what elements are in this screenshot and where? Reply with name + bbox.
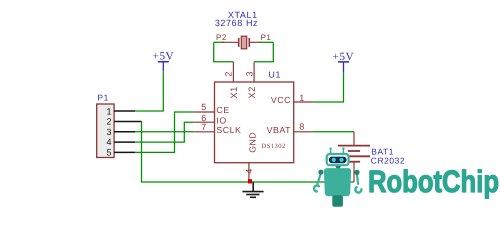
pin 1 stub VCC [294,101,314,103]
svg-text:4: 4 [244,168,254,174]
svg-text:GND: GND [247,132,257,153]
wire: left elbow down to X1 pin [214,42,234,62]
svg-text:X1: X1 [229,86,239,98]
power +5V symbol (right) [333,51,354,73]
svg-text:2: 2 [224,71,234,77]
P1 pin 3 stub [114,131,135,133]
wire: crystal left lead to left elbow [214,41,224,43]
pin 6 stub IO [194,121,215,123]
wire: P1 pin2 down to ground rail [141,122,249,183]
wire: P1 pin3 to SCLK [135,131,194,133]
svg-text:32768 Hz: 32768 Hz [215,18,258,28]
wire: P1 pin1 to +5V riser [135,71,163,111]
RobotChip robot mascot [314,147,361,206]
svg-text:DS1302: DS1302 [262,143,286,150]
wire: crystal right lead to right elbow [259,41,274,43]
antennae [330,149,332,154]
IC U1 DS1302 body [215,82,294,163]
node junction at GND pin [248,179,252,183]
svg-text:8: 8 [299,122,305,132]
svg-text:4: 4 [106,137,111,147]
right arm [357,174,358,185]
neck [336,166,341,170]
legs [332,195,343,207]
P1 pin 4 stub [114,141,135,143]
connector P1 body [97,104,114,158]
svg-text:3: 3 [106,127,111,137]
svg-text:VCC: VCC [271,95,291,105]
wire: VBAT to battery plus [313,131,354,133]
svg-text:5: 5 [106,148,111,158]
svg-text:P1: P1 [97,93,108,103]
svg-text:1: 1 [106,106,111,116]
svg-text:CE: CE [216,105,229,115]
P1 pin 2 stub [114,121,141,123]
svg-text:2: 2 [106,117,111,127]
wire: right elbow down to X2 pin [254,42,273,62]
power +5V symbol (left) [153,51,174,72]
pin 2 stub X1 [232,62,234,82]
svg-text:7: 7 [201,122,207,132]
pin 8 stub VBAT [294,131,313,133]
P1 pin 1 stub [114,110,135,112]
svg-text:1: 1 [299,93,305,103]
svg-text:IO: IO [216,115,226,125]
svg-text:U1: U1 [269,69,281,79]
pin 7 stub SCLK [194,131,215,133]
svg-text:X2: X2 [247,86,257,98]
svg-text:RobotChip: RobotChip [368,164,499,199]
wire: P1 pin5 to CE [135,112,194,152]
wire: VCC to +5V riser (right) [313,73,343,102]
pin 5 stub CE [194,111,215,113]
svg-text:+5V: +5V [333,51,354,63]
crystal XTAL1 symbol [222,36,260,49]
ground symbol [242,183,263,198]
svg-text:SCLK: SCLK [216,125,241,135]
svg-text:5: 5 [201,102,207,112]
wire: ground rail junction to battery minus [249,181,354,183]
wire: P1 pin4 to IO [135,122,194,142]
body [325,169,350,195]
left arm [317,174,321,185]
battery BAT1 symbol [338,132,370,182]
svg-text:P2: P2 [216,33,227,42]
svg-text:VBAT: VBAT [267,125,291,135]
head [327,154,349,165]
eye band [329,157,347,164]
svg-text:P1: P1 [261,33,272,42]
svg-text:+5V: +5V [153,51,174,63]
pin 3 stub X2 [253,62,255,82]
P1 pin 5 stub [114,151,135,153]
pin 4 stub GND [248,163,250,182]
svg-text:3: 3 [244,71,254,77]
